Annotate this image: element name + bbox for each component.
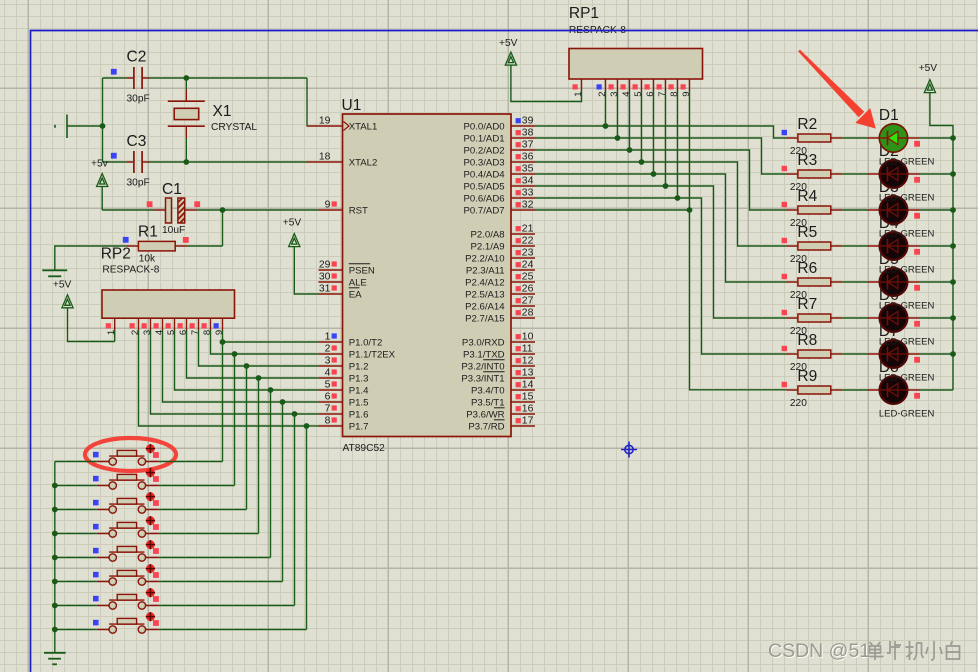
marker U1 pin 29 bbox=[332, 261, 337, 266]
svg-text:P1.2: P1.2 bbox=[349, 361, 369, 372]
svg-text:+5V: +5V bbox=[53, 280, 72, 291]
wire P0.0 to R2 bbox=[535, 126, 787, 138]
svg-text:R2: R2 bbox=[797, 116, 817, 133]
marker RP2 pin 6 bbox=[178, 323, 183, 328]
svg-text:P3.2/INT0: P3.2/INT0 bbox=[461, 361, 504, 372]
resistor R8 220 bbox=[787, 350, 843, 358]
wire riser to P1.6 bbox=[295, 413, 319, 415]
marker U1 pin 34 bbox=[516, 178, 521, 183]
svg-text:P1.1/T2EX: P1.1/T2EX bbox=[349, 349, 396, 360]
svg-text:8: 8 bbox=[202, 330, 213, 335]
wire D8 to rail bbox=[920, 389, 954, 391]
junction bus button 6 bbox=[52, 579, 58, 585]
wire R6 to D5 bbox=[842, 281, 867, 283]
wire C1 right to RST bbox=[197, 209, 319, 211]
RP2 pin 5 stub bbox=[174, 318, 176, 330]
wire riser down to R9 bbox=[690, 210, 787, 390]
U1 pin 6 (P1.5) stub bbox=[319, 401, 343, 403]
wire RP2 pin 4 to P1 row 402 bbox=[163, 330, 283, 402]
wire riser 1 bbox=[222, 342, 224, 462]
junction RP1 riser P0.6 bbox=[675, 195, 681, 201]
marker U1 pin 28 bbox=[516, 310, 521, 315]
wire bus to button 7 bbox=[55, 605, 97, 607]
junction rail D1 bbox=[950, 135, 956, 141]
button 4 actuator marker bbox=[146, 516, 155, 525]
marker U1 pin 2 bbox=[332, 345, 337, 350]
svg-text:XTAL1: XTAL1 bbox=[349, 121, 378, 132]
svg-text:LED-GREEN: LED-GREEN bbox=[879, 301, 935, 312]
wire button 1 to riser bbox=[159, 461, 223, 463]
wire +5V to RP1 pin1 bbox=[511, 65, 582, 101]
U1 pin 9 (RST) stub bbox=[319, 209, 343, 211]
svg-text:5: 5 bbox=[633, 92, 644, 97]
svg-text:6: 6 bbox=[178, 330, 189, 335]
wire RP2 pin 5 to P1 row 390 bbox=[175, 330, 271, 390]
svg-text:P2.2/A10: P2.2/A10 bbox=[465, 253, 504, 264]
marker U1 pin 32 bbox=[516, 202, 521, 207]
svg-text:LED-GREEN: LED-GREEN bbox=[879, 265, 935, 276]
watermark CSDN bbox=[768, 640, 871, 663]
svg-text:CSDN @51: CSDN @51 bbox=[768, 640, 870, 662]
svg-text:3: 3 bbox=[142, 330, 153, 335]
svg-text:P2.6/A14: P2.6/A14 bbox=[465, 301, 505, 312]
resistor pack RP2 RESPACK-8 body bbox=[102, 290, 235, 318]
svg-text:AT89C52: AT89C52 bbox=[343, 443, 386, 454]
RP1 pin 1 stub bbox=[581, 79, 583, 91]
blue marker button 1 bbox=[93, 452, 99, 458]
wire RP2 pin 6 to P1 row 378 bbox=[187, 330, 259, 378]
svg-text:26: 26 bbox=[522, 284, 534, 295]
marker U1 pin 31 bbox=[332, 285, 337, 290]
marker RP1 pin 9 bbox=[681, 84, 686, 89]
LED D6 LED-GREEN bbox=[867, 304, 920, 332]
svg-text:35: 35 bbox=[522, 164, 534, 175]
junction rail D6 bbox=[950, 315, 956, 321]
resistor R9 220 bbox=[787, 386, 843, 394]
red arrow annotation bbox=[798, 50, 876, 129]
svg-text:P2.5/A13: P2.5/A13 bbox=[465, 289, 504, 300]
svg-text:27: 27 bbox=[522, 296, 534, 307]
U1 pin 28 (P2.7/A15) stub bbox=[511, 317, 535, 319]
U1 pin 11 (P3.1/TXD) stub bbox=[511, 353, 535, 355]
svg-text:3: 3 bbox=[609, 92, 620, 97]
wire R8 to D7 bbox=[842, 353, 867, 355]
wire RP1 pin 5 to P0.3 bbox=[641, 91, 643, 163]
marker R8 bbox=[782, 346, 787, 351]
blue marker button 3 bbox=[93, 500, 99, 506]
svg-text:12: 12 bbox=[522, 356, 534, 367]
marker RP1 pin 6 bbox=[645, 84, 650, 89]
U1 pin 3 (P1.2) stub bbox=[319, 365, 343, 367]
wire +5V to EA bbox=[294, 247, 318, 294]
marker U1 pin 4 bbox=[332, 369, 337, 374]
svg-text:3: 3 bbox=[325, 356, 331, 367]
wire riser 2 bbox=[234, 354, 236, 486]
RP1 pin 5 stub bbox=[641, 79, 643, 91]
svg-text:P2.0/A8: P2.0/A8 bbox=[470, 229, 504, 240]
junction C2/C3 left bbox=[100, 123, 106, 129]
svg-text:+5V: +5V bbox=[283, 218, 302, 229]
wire RP2 pin 2 to P1 row 426 bbox=[139, 330, 307, 426]
marker U1 pin 12 bbox=[516, 358, 521, 363]
RP2 pin 6 stub bbox=[186, 318, 188, 330]
wire bus to button 6 bbox=[55, 581, 97, 583]
svg-text:2: 2 bbox=[597, 92, 608, 97]
svg-text:RESPACK-8: RESPACK-8 bbox=[102, 265, 159, 276]
svg-text:7: 7 bbox=[657, 92, 668, 97]
U1 pin 37 (P0.2/AD2) stub bbox=[511, 149, 535, 151]
XTAL1 clock marker bbox=[344, 122, 350, 131]
U1 pin 25 (P2.4/A12) stub bbox=[511, 281, 535, 283]
junction RP1 riser P0.4 bbox=[651, 171, 657, 177]
red marker C1 right bbox=[194, 201, 200, 207]
push button 7 bbox=[97, 594, 159, 609]
wire RP1 pin 2 to P0.0 bbox=[605, 91, 607, 127]
svg-text:R1: R1 bbox=[138, 224, 158, 241]
wire P0.3 to R5 bbox=[535, 162, 787, 246]
wire R1 right bbox=[187, 245, 223, 247]
U1 pin 15 (P3.5/T1) stub bbox=[511, 401, 535, 403]
marker RP2 pin 3 bbox=[142, 323, 147, 328]
wire bus to button 5 bbox=[55, 557, 97, 559]
svg-text:2: 2 bbox=[325, 344, 331, 355]
svg-text:XTAL2: XTAL2 bbox=[349, 157, 378, 168]
U1 pin 19 (XTAL1) stub bbox=[307, 125, 343, 127]
wire RP1 pin 4 to P0.2 bbox=[629, 91, 631, 151]
wire bus to button 4 bbox=[55, 533, 97, 535]
svg-text:P2.4/A12: P2.4/A12 bbox=[465, 277, 504, 288]
wire riser 5 bbox=[270, 390, 272, 558]
wire P0.5 to R7 bbox=[535, 186, 787, 318]
svg-text:RST: RST bbox=[349, 205, 368, 216]
push button 3 bbox=[97, 498, 159, 513]
resistor R1 10k bbox=[126, 241, 187, 251]
marker U1 pin 26 bbox=[516, 286, 521, 291]
capacitor C1 (10uF electrolytic) bbox=[154, 198, 197, 223]
button 3 actuator marker bbox=[146, 492, 155, 501]
marker U1 pin 8 bbox=[332, 417, 337, 422]
marker U1 pin 6 bbox=[332, 393, 337, 398]
U1 pin 12 (P3.2/INT0) stub bbox=[511, 365, 535, 367]
U1 pin 2 (P1.1/T2EX) stub bbox=[319, 353, 343, 355]
svg-text:LED-GREEN: LED-GREEN bbox=[879, 229, 935, 240]
RP1 pin 7 stub bbox=[665, 79, 667, 91]
push button 6 bbox=[97, 570, 159, 585]
wire riser 4 bbox=[258, 378, 260, 534]
U1 pin 24 (P2.3/A11) stub bbox=[511, 269, 535, 271]
svg-text:1: 1 bbox=[573, 92, 584, 97]
marker U1 pin 37 bbox=[516, 142, 521, 147]
junction riser P1.7 bbox=[304, 423, 310, 429]
svg-text:1: 1 bbox=[325, 332, 331, 343]
RP2 pin 7 stub bbox=[198, 318, 200, 330]
svg-text:10k: 10k bbox=[139, 254, 156, 265]
svg-text:LED-GREEN: LED-GREEN bbox=[879, 193, 935, 204]
wire C3 right to XTAL2 bbox=[150, 161, 307, 163]
junction RP1 riser P0.3 bbox=[639, 159, 645, 165]
power +5V arrow (LED rail) bbox=[924, 80, 935, 93]
marker U1 pin 16 bbox=[516, 406, 521, 411]
crystal X1 bbox=[168, 90, 205, 139]
svg-text:17: 17 bbox=[522, 416, 534, 427]
wire R1 left to +5V bar bbox=[55, 246, 127, 270]
marker D6 bbox=[914, 321, 920, 327]
marker D8 bbox=[914, 393, 920, 399]
svg-text:C2: C2 bbox=[127, 49, 147, 66]
svg-text:39: 39 bbox=[522, 116, 534, 127]
marker RP2 pin 5 bbox=[166, 323, 171, 328]
junction C1/R1/RST bbox=[220, 207, 226, 213]
wire bus to button 1 bbox=[55, 461, 97, 463]
svg-text:P2.7/A15: P2.7/A15 bbox=[465, 313, 504, 324]
marker D2 bbox=[914, 177, 920, 183]
push button 2 bbox=[97, 474, 159, 489]
U1 pin 4 (P1.3) stub bbox=[319, 377, 343, 379]
junction rail D7 bbox=[950, 351, 956, 357]
resistor R6 220 bbox=[787, 278, 843, 286]
wire RP2 pin 3 to P1 row 414 bbox=[151, 330, 295, 414]
marker RP1 pin 7 bbox=[657, 84, 662, 89]
svg-text:P3.6/WR: P3.6/WR bbox=[466, 409, 504, 420]
red marker button 6 bbox=[153, 572, 159, 578]
LED D7 LED-GREEN bbox=[867, 340, 920, 368]
wire R9 to D8 bbox=[842, 389, 867, 391]
svg-text:C1: C1 bbox=[162, 181, 182, 198]
red marker button 8 bbox=[153, 620, 159, 626]
U1 pin 14 (P3.4/T0) stub bbox=[511, 389, 535, 391]
wire C3 left bbox=[103, 161, 127, 163]
blue marker button 5 bbox=[93, 548, 99, 554]
svg-text:28: 28 bbox=[522, 308, 534, 319]
blue marker C2 bbox=[111, 69, 117, 75]
svg-text:R7: R7 bbox=[797, 296, 817, 313]
junction riser P1.0 bbox=[220, 339, 226, 345]
svg-text:9: 9 bbox=[214, 330, 225, 335]
push button 4 bbox=[97, 522, 159, 537]
svg-text:220: 220 bbox=[790, 398, 807, 409]
junction bus button 7 bbox=[52, 603, 58, 609]
marker R6 bbox=[782, 274, 787, 279]
junction RP1 riser P0.0 bbox=[603, 123, 609, 129]
svg-text:ALE: ALE bbox=[349, 277, 367, 288]
junction riser P1.6 bbox=[292, 411, 298, 417]
svg-text:P1.3: P1.3 bbox=[349, 373, 369, 384]
marker R4 bbox=[782, 202, 787, 207]
svg-text:30pF: 30pF bbox=[127, 94, 150, 105]
marker D3 bbox=[914, 213, 920, 219]
U1 pin 18 (XTAL2) stub bbox=[307, 161, 343, 163]
RP1 pin 3 stub bbox=[617, 79, 619, 91]
blue marker button 8 bbox=[93, 620, 99, 626]
marker R9 bbox=[782, 382, 787, 387]
resistor pack RP1 RESPACK-8 body bbox=[569, 49, 703, 80]
svg-text:X1: X1 bbox=[213, 103, 232, 120]
junction bus button 2 bbox=[52, 483, 58, 489]
marker U1 pin 17 bbox=[516, 418, 521, 423]
svg-text:CRYSTAL: CRYSTAL bbox=[211, 122, 257, 133]
wire D1 to rail bbox=[920, 137, 954, 139]
svg-text:P0.7/AD7: P0.7/AD7 bbox=[464, 205, 505, 216]
marker U1 pin 33 bbox=[516, 190, 521, 195]
LED D8 LED-GREEN bbox=[867, 376, 920, 404]
svg-text:8: 8 bbox=[669, 92, 680, 97]
marker U1 pin 23 bbox=[516, 250, 521, 255]
wire D6 to rail bbox=[920, 317, 954, 319]
wire X1 bottom bbox=[185, 138, 187, 162]
svg-text:P3.3/INT1: P3.3/INT1 bbox=[461, 373, 504, 384]
wire button 3 to riser bbox=[159, 509, 247, 511]
svg-text:6: 6 bbox=[645, 92, 656, 97]
U1 pin 33 (P0.6/AD6) stub bbox=[511, 197, 535, 199]
red marker button 1 bbox=[153, 452, 159, 458]
U1 pin 8 (P1.7) stub bbox=[319, 425, 343, 427]
wire RP2 pin 7 to P1 row 366 bbox=[199, 330, 247, 366]
wire D4 to rail bbox=[920, 245, 954, 247]
RP2 pin 8 stub bbox=[210, 318, 212, 330]
U1 pin 29 (PSEN) stub bbox=[319, 269, 343, 271]
push button 5 bbox=[97, 546, 159, 561]
RP1 pin 8 stub bbox=[677, 79, 679, 91]
U1 pin 22 (P2.1/A9) stub bbox=[511, 245, 535, 247]
svg-text:37: 37 bbox=[522, 140, 534, 151]
marker R3 bbox=[782, 166, 787, 171]
svg-text:8: 8 bbox=[325, 416, 331, 427]
U1 pin 1 (P1.0/T2) stub bbox=[319, 341, 343, 343]
svg-text:34: 34 bbox=[522, 176, 534, 187]
RP1 pin 4 stub bbox=[629, 79, 631, 91]
wire C2 left bbox=[103, 77, 127, 79]
wire button ground bus bbox=[54, 462, 56, 653]
svg-text:LED-GREEN: LED-GREEN bbox=[879, 409, 935, 420]
junction RP1 riser P0.2 bbox=[627, 147, 633, 153]
resistor R5 220 bbox=[787, 242, 843, 250]
marker U1 pin 39 bbox=[516, 118, 521, 123]
wire button 2 to riser bbox=[159, 485, 235, 487]
U1 pin 32 (P0.7/AD7) stub bbox=[511, 209, 535, 211]
wire D5 to rail bbox=[920, 281, 954, 283]
U1 pin 5 (P1.4) stub bbox=[319, 389, 343, 391]
svg-text:5: 5 bbox=[166, 330, 177, 335]
svg-text:19: 19 bbox=[319, 116, 331, 127]
marker U1 pin 1 bbox=[332, 333, 337, 338]
wire C2 net down to XTAL1 bbox=[306, 78, 308, 126]
marker U1 pin 10 bbox=[516, 334, 521, 339]
svg-text:25: 25 bbox=[522, 272, 534, 283]
marker R7 bbox=[782, 310, 787, 315]
wire R2 to D1 bbox=[842, 137, 867, 139]
wire D7 to rail bbox=[920, 353, 954, 355]
wire R4 to D3 bbox=[842, 209, 867, 211]
junction riser P1.1 bbox=[232, 351, 238, 357]
U1 pin 26 (P2.5/A13) stub bbox=[511, 293, 535, 295]
wire P0.7 to riser bbox=[535, 209, 690, 211]
button 7 actuator marker bbox=[146, 588, 155, 597]
red marker button 4 bbox=[153, 524, 159, 530]
svg-text:PSEN: PSEN bbox=[349, 265, 375, 276]
wire riser 8 bbox=[306, 426, 308, 630]
wire R7 to D6 bbox=[842, 317, 867, 319]
svg-text:D1: D1 bbox=[879, 107, 899, 124]
marker U1 pin 7 bbox=[332, 405, 337, 410]
junction RP1 riser P0.7 bbox=[687, 207, 693, 213]
marker U1 pin 14 bbox=[516, 382, 521, 387]
junction riser P1.5 bbox=[280, 399, 286, 405]
RP1 pin 6 stub bbox=[653, 79, 655, 91]
resistor R4 220 bbox=[787, 206, 843, 214]
RP2 pin 3 stub bbox=[150, 318, 152, 330]
svg-text:R5: R5 bbox=[797, 224, 817, 241]
RP2 pin 4 stub bbox=[162, 318, 164, 330]
svg-text:1: 1 bbox=[106, 330, 117, 335]
svg-text:P0.4/AD4: P0.4/AD4 bbox=[464, 169, 506, 180]
svg-text:LED-GREEN: LED-GREEN bbox=[879, 337, 935, 348]
wire bus to button 3 bbox=[55, 509, 97, 511]
marker D4 bbox=[914, 249, 920, 255]
marker RP1 pin 3 bbox=[609, 84, 614, 89]
wire P0.6 to R8 bbox=[535, 198, 787, 354]
svg-text:33: 33 bbox=[522, 188, 534, 199]
U1 pin 21 (P2.0/A8) stub bbox=[511, 233, 535, 235]
wire riser to P1.4 bbox=[271, 389, 319, 391]
button 5 actuator marker bbox=[146, 540, 155, 549]
svg-text:LED-GREEN: LED-GREEN bbox=[879, 373, 935, 384]
junction riser P1.3 bbox=[256, 375, 262, 381]
wire RP1 pin 7 to P0.5 bbox=[665, 91, 667, 187]
LED D2 LED-GREEN bbox=[867, 160, 920, 188]
svg-text:36: 36 bbox=[522, 152, 534, 163]
marker U1 pin 11 bbox=[516, 346, 521, 351]
svg-text:2: 2 bbox=[130, 330, 141, 335]
U1 pin 17 (P3.7/RD) stub bbox=[511, 425, 535, 427]
svg-text:P0.5/AD5: P0.5/AD5 bbox=[464, 181, 505, 192]
marker RP1 pin 4 bbox=[621, 84, 626, 89]
wire RP1 pin 8 to P0.6 bbox=[677, 91, 679, 199]
junction rail D3 bbox=[950, 207, 956, 213]
button 6 actuator marker bbox=[146, 564, 155, 573]
watermark CJK glyphs bbox=[867, 642, 884, 660]
svg-text:18: 18 bbox=[319, 152, 331, 163]
RP1 pin 2 stub bbox=[605, 79, 607, 91]
wire riser to P1.3 bbox=[259, 377, 319, 379]
U1 pin 10 (P3.0/RXD) stub bbox=[511, 341, 535, 343]
marker D1 bbox=[914, 141, 920, 147]
svg-text:15: 15 bbox=[522, 392, 534, 403]
U1 pin 16 (P3.6/WR) stub bbox=[511, 413, 535, 415]
power +5V bar symbol bbox=[42, 270, 67, 276]
red marker C1 left bbox=[147, 201, 153, 207]
red highlight ellipse annotation bbox=[85, 438, 176, 471]
marker U1 pin 3 bbox=[332, 357, 337, 362]
marker U1 pin 38 bbox=[516, 130, 521, 135]
marker RP2 pin 8 bbox=[202, 323, 207, 328]
svg-text:P1.4: P1.4 bbox=[349, 385, 369, 396]
marker U1 pin 15 bbox=[516, 394, 521, 399]
wire riser to P1.1 bbox=[235, 353, 319, 355]
marker RP2 pin 2 bbox=[130, 323, 135, 328]
marker U1 pin 24 bbox=[516, 262, 521, 267]
blue marker button 7 bbox=[93, 596, 99, 602]
wire P0.4 to R6 bbox=[535, 174, 787, 282]
marker U1 pin 13 bbox=[516, 370, 521, 375]
wire bus to button 8 bbox=[55, 629, 97, 631]
wire riser to P1.7 bbox=[307, 425, 319, 427]
svg-text:P0.1/AD1: P0.1/AD1 bbox=[464, 133, 505, 144]
wire junction down to R1 bbox=[222, 210, 224, 246]
wire D2 to rail bbox=[920, 173, 954, 175]
wire RP1 pin 3 to P0.1 bbox=[617, 91, 619, 139]
wire button 6 to riser bbox=[159, 581, 283, 583]
power +5V arrow (RP1) bbox=[505, 52, 516, 65]
